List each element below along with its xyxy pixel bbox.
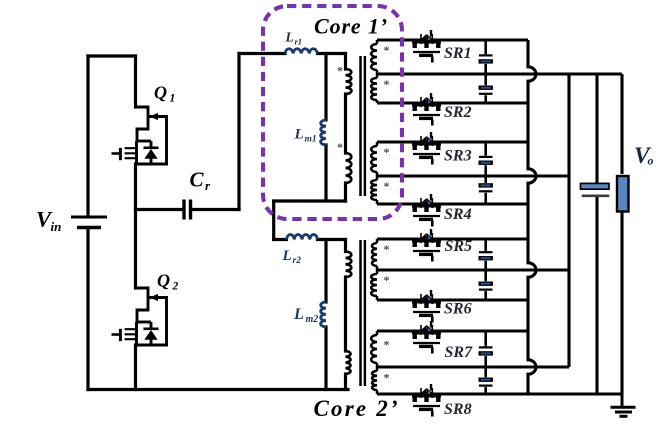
inductor Lr2 — [287, 235, 318, 240]
wire bus3 upper — [595, 74, 598, 184]
capacitor cell4 lower — [479, 367, 493, 394]
wire Lm2 branch — [324, 240, 327, 390]
svg-text:*: * — [337, 140, 343, 154]
svg-text:*: * — [384, 179, 390, 193]
label Vin — [36, 207, 61, 235]
winding primary1 upper — [346, 69, 352, 94]
svg-text:Core 2’: Core 2’ — [314, 396, 400, 421]
svg-text:L: L — [294, 127, 304, 143]
svg-text:m2: m2 — [306, 314, 319, 325]
capacitor Cr — [184, 200, 191, 220]
svg-text:*: * — [384, 43, 390, 57]
wire row SR1 — [377, 38, 528, 41]
svg-text:Q: Q — [154, 83, 167, 103]
transistor SR2 — [412, 93, 441, 126]
label Q2 — [157, 271, 179, 293]
wire left rail upper (Vin top) — [86, 56, 89, 217]
svg-text:SR6: SR6 — [444, 301, 472, 318]
wire bottom primary-side bus — [88, 388, 348, 391]
svg-text:*: * — [384, 145, 390, 159]
svg-text:SR8: SR8 — [444, 401, 472, 418]
inductor Lm1 — [321, 120, 326, 145]
wire row SR3 — [377, 140, 528, 143]
svg-text:SR5: SR5 — [445, 238, 473, 255]
wire row SR2 — [377, 101, 528, 104]
transistor SR4 — [412, 194, 441, 227]
svg-text:C: C — [190, 168, 205, 192]
wire row SR8 bottom bus — [377, 392, 622, 395]
wire row mid4 with hop — [377, 365, 569, 368]
dashed box core 1 — [263, 6, 402, 219]
svg-text:1: 1 — [170, 93, 176, 105]
transistor SR1 — [412, 30, 441, 63]
transformer core 1 bars — [361, 56, 365, 196]
svg-text:Core 1’: Core 1’ — [314, 14, 388, 39]
wire Lr1 to primary 1 top — [318, 52, 346, 55]
secondary pair 1 (S1,S2) spine — [371, 40, 377, 103]
label Lm2 — [293, 306, 318, 325]
winding primary1 lower — [346, 153, 352, 183]
svg-text:r2: r2 — [293, 256, 302, 266]
wire Cr left — [136, 208, 183, 211]
winding primary2 upper — [346, 252, 352, 278]
wire primary 2 spine — [344, 240, 347, 252]
wire Lm1 branch — [324, 54, 327, 202]
wire row SR7 — [377, 329, 528, 332]
svg-text:*: * — [384, 242, 390, 256]
secondary pair 2 (S3,S4) spine — [371, 142, 377, 204]
capacitor cell2 lower — [479, 176, 493, 204]
transistor SR6 — [412, 290, 441, 323]
wire top-left horizontal — [88, 54, 136, 57]
wire riser to Lr1 — [237, 54, 240, 210]
wire down-leg to Lr2 — [272, 201, 275, 240]
wire Lr2 left stub — [274, 238, 287, 241]
transistor SR8 — [412, 384, 441, 417]
svg-text:2: 2 — [172, 281, 179, 293]
wire bus4 upper — [620, 74, 623, 174]
svg-text:r1: r1 — [295, 37, 303, 47]
inductor Lr1 — [285, 49, 317, 54]
wire row mid3 with hop — [377, 268, 569, 271]
transformer core 2 bars — [361, 240, 365, 386]
node polarity dots — [337, 43, 390, 385]
svg-text:in: in — [51, 219, 62, 234]
svg-text:*: * — [384, 77, 390, 91]
transistor Q1 — [112, 107, 167, 164]
svg-text:Q: Q — [157, 271, 170, 291]
svg-text:m1: m1 — [305, 135, 317, 145]
svg-text:o: o — [648, 154, 654, 168]
resistor load Vo — [617, 176, 629, 212]
wire row mid2 with hop — [377, 174, 569, 177]
wire bus2 — [567, 74, 570, 367]
svg-text:SR3: SR3 — [444, 148, 472, 165]
capacitor cell4 upper — [479, 331, 493, 367]
label Cr — [190, 168, 212, 194]
wire Lr2 to primary 2 top — [318, 238, 346, 241]
capacitor output Co — [581, 183, 610, 195]
svg-text:SR1: SR1 — [444, 45, 472, 62]
transistor Q2 — [112, 288, 167, 345]
label Lr2 — [282, 248, 302, 266]
winding primary2 lower — [346, 351, 351, 374]
secondary pair 3 (S5,S6) spine — [371, 239, 377, 300]
wire top to Lr1 coil — [239, 52, 285, 55]
wire bus3 lower — [595, 197, 598, 394]
transistor SR3 — [412, 132, 441, 165]
label Lr1 — [285, 30, 303, 47]
wire Q rail bottom (Q2 source) — [134, 345, 137, 390]
svg-text:SR4: SR4 — [444, 206, 472, 223]
wire left rail lower (Vin bottom) — [86, 228, 89, 390]
secondary pair 4 (S7,S8) spine — [371, 331, 377, 394]
svg-text:SR7: SR7 — [445, 344, 474, 361]
wire core1 bottom junction — [274, 199, 346, 202]
wire row SR6 — [377, 298, 528, 301]
label Lm1 — [294, 127, 317, 145]
wire bus1 with hops over mid rows — [528, 40, 536, 394]
wire Cr right to riser — [192, 208, 239, 211]
wire row mid1 with hop — [377, 72, 622, 75]
svg-text:*: * — [384, 338, 390, 352]
label Vo — [634, 143, 654, 169]
capacitor cell1 upper — [479, 40, 493, 74]
transistor SR7 — [412, 321, 441, 354]
wire row SR4 — [377, 202, 528, 205]
wire Q rail middle (Q1 source to Q2 drain) — [134, 164, 137, 288]
svg-text:*: * — [337, 64, 343, 78]
wire bus4 lower — [620, 212, 623, 395]
svg-text:L: L — [293, 306, 304, 323]
battery Vin — [71, 217, 107, 228]
wire row SR5 — [377, 237, 528, 240]
inductor Lm2 — [321, 302, 326, 327]
svg-text:*: * — [384, 371, 390, 385]
svg-text:*: * — [384, 273, 390, 287]
wire primary 1 spine — [344, 54, 347, 70]
svg-text:SR2: SR2 — [444, 104, 472, 121]
capacitor cell2 upper — [479, 142, 493, 176]
svg-text:L: L — [285, 30, 294, 45]
capacitor cell1 lower — [479, 74, 493, 103]
capacitor cell3 lower — [479, 270, 493, 300]
transistor SR5 — [412, 229, 441, 262]
wire Q rail top (drain Q1) — [134, 56, 137, 107]
output rows — [377, 40, 622, 394]
capacitor cell3 upper — [479, 239, 493, 270]
svg-text:L: L — [282, 248, 292, 264]
label Q1 — [154, 83, 175, 105]
ground — [611, 394, 636, 416]
